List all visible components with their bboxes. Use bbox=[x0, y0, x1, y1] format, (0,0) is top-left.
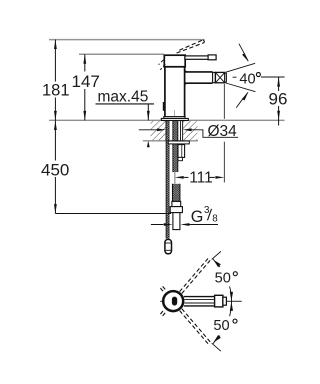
dim 96 top arrow bbox=[277, 77, 280, 86]
lever tip bbox=[208, 55, 216, 60]
dim 96 line bbox=[278, 77, 280, 125]
dim G3/8 left arrow bbox=[164, 223, 173, 226]
lever raised tip arc bbox=[203, 40, 204, 43]
deck bottom line bbox=[143, 140, 198, 142]
dim 450 bottom reference line bbox=[55, 213, 171, 215]
hose nipple tube bbox=[173, 213, 180, 230]
deck top line bbox=[49, 119, 285, 121]
svg-text:40: 40 bbox=[239, 72, 255, 88]
dim 111 extension line upper bbox=[223, 84, 225, 119]
reference line: lever max height bbox=[49, 39, 205, 41]
svg-text:Ø34: Ø34 bbox=[208, 123, 238, 140]
dim 40deg degree symbol bbox=[256, 73, 260, 77]
plan spout neck top edge bbox=[184, 296, 215, 298]
dim G3/8 slash bbox=[208, 209, 212, 221]
dim 147 top arrow bbox=[83, 54, 86, 63]
shank right tube line bbox=[180, 121, 182, 141]
dim 40deg upper arrowhead bbox=[242, 53, 248, 61]
dim 450 line bbox=[54, 120, 56, 213]
deck hatching right bbox=[183, 121, 198, 140]
dim 181 line bbox=[54, 40, 56, 121]
spray line upper bbox=[226, 63, 255, 72]
spout bottom fillet bbox=[185, 83, 188, 86]
dim 50deg lower degree symbol bbox=[233, 319, 237, 323]
svg-text:96: 96 bbox=[269, 90, 288, 109]
mounting nut bbox=[178, 145, 185, 158]
plan spout inner line lower bbox=[185, 302, 215, 304]
dim max.45 arrow to deck bottom bbox=[147, 141, 150, 147]
svg-text:8: 8 bbox=[212, 214, 218, 225]
spout top fillet bbox=[185, 69, 188, 72]
plan axis tick left bbox=[160, 300, 164, 302]
dim 147 bottom arrow bbox=[83, 111, 86, 120]
body centerline bbox=[174, 110, 176, 120]
svg-text:50: 50 bbox=[213, 318, 229, 334]
svg-text:max.45: max.45 bbox=[98, 88, 149, 105]
mounting nut tab bbox=[178, 157, 183, 160]
rod weight inner lines bbox=[165, 243, 171, 250]
dim diam34 left arrow bbox=[157, 128, 166, 131]
dim 40deg lower arrowhead bbox=[242, 92, 248, 100]
plan aerator block bbox=[215, 295, 223, 307]
dim diam34 leader bbox=[192, 130, 238, 138]
svg-text:181: 181 bbox=[42, 82, 70, 100]
dim 50deg lower arc near axis bbox=[230, 302, 232, 317]
lever rotated up 50deg (dashed) bbox=[160, 257, 211, 316]
aerator block bbox=[215, 72, 224, 82]
spout bottom edge bbox=[185, 82, 213, 84]
dim 40deg left tick bbox=[233, 76, 237, 78]
dim 450 bottom arrow bbox=[54, 204, 57, 213]
dim 111 left tail bbox=[184, 176, 189, 178]
spout top edge bbox=[185, 71, 213, 73]
washer under deck bbox=[168, 141, 189, 144]
dim 111 extension line lower bbox=[223, 142, 225, 183]
dim 450 top arrow bbox=[54, 121, 57, 130]
faucet cartridge block bbox=[164, 55, 185, 67]
faucet body bbox=[165, 67, 185, 117]
dim 50deg upper arrowhead at axis bbox=[230, 292, 233, 301]
body left protrusion bbox=[163, 102, 165, 111]
dim 111 right tail bbox=[209, 176, 215, 178]
dim 50deg upper extension line bbox=[212, 251, 221, 259]
mounting hole left wall bbox=[165, 120, 167, 141]
lever raised (dashed) bbox=[177, 40, 205, 53]
hose collar bbox=[172, 201, 181, 206]
lever bar (horizontal) bbox=[185, 56, 208, 59]
pull rod (left) bbox=[166, 121, 169, 239]
dim 96 bottom arrow bbox=[277, 111, 280, 120]
dim max.45 underline bbox=[96, 103, 155, 105]
spout collar bbox=[213, 72, 216, 82]
dim diam34 left tail bbox=[139, 129, 157, 131]
dim 50deg upper arc stub bbox=[213, 259, 220, 267]
dim 50deg upper arrowhead at lever bbox=[213, 260, 221, 268]
svg-text:50: 50 bbox=[215, 270, 231, 286]
spray line lower bbox=[226, 83, 256, 92]
dim 40deg upper leader bbox=[239, 44, 248, 62]
dim max.45 line upper bbox=[147, 104, 149, 120]
svg-text:450: 450 bbox=[41, 160, 69, 179]
dim 40deg lower leader bbox=[236, 92, 248, 107]
aerator face bbox=[225, 73, 227, 82]
dim 181 bottom arrow bbox=[54, 111, 57, 120]
dim max.45 arrow to deck top bbox=[147, 111, 150, 120]
body circle bbox=[163, 291, 183, 311]
dim G3/8 right tail bbox=[189, 224, 218, 226]
svg-text:147: 147 bbox=[72, 72, 100, 91]
svg-text:G: G bbox=[191, 208, 204, 226]
spout axis reference tick for 96 bbox=[261, 76, 285, 78]
reference line: cartridge top (147 level) bbox=[79, 53, 164, 55]
plan spout inner line upper bbox=[185, 299, 215, 301]
dim 50deg lower arrowhead at axis bbox=[230, 302, 233, 311]
threaded shank bbox=[173, 121, 178, 173]
dim 50deg upper degree symbol bbox=[233, 272, 237, 276]
dim G3/8 left tail bbox=[151, 224, 164, 226]
plan axis line right bbox=[226, 300, 241, 302]
lever raised back end (dashed) bbox=[159, 60, 166, 70]
dim 111 left arrow bbox=[175, 176, 184, 179]
dim 147 line bbox=[84, 54, 86, 120]
plan spout neck bottom edge bbox=[184, 305, 215, 307]
dim 50deg lower arc stub bbox=[213, 336, 220, 344]
deck hatching left bbox=[151, 121, 167, 140]
mounting nut inner line bbox=[181, 145, 183, 158]
axis extension between shank and hose bbox=[174, 172, 176, 184]
hose hex nut bbox=[170, 207, 182, 213]
plan aerator cap bbox=[223, 297, 227, 305]
dim 50deg lower extension line bbox=[212, 343, 221, 351]
aerator cross X bbox=[215, 72, 224, 82]
svg-text:111: 111 bbox=[189, 169, 213, 186]
lever rotated down 50deg (dashed) bbox=[160, 286, 211, 345]
lever slot (plan) bbox=[172, 297, 177, 306]
rod weight bbox=[165, 239, 172, 253]
dim 50deg lower arrowhead at lever bbox=[213, 335, 221, 343]
dim 50deg upper arc near axis bbox=[230, 286, 232, 301]
base flange lower tier bbox=[161, 119, 188, 121]
dim 111 right arrow bbox=[215, 176, 224, 179]
dim G3/8 right arrow bbox=[180, 223, 189, 226]
dim diam34 right arrow bbox=[183, 128, 192, 131]
dim 181 top arrow bbox=[54, 40, 57, 49]
base flange upper tier bbox=[164, 117, 185, 119]
mounting hole right wall bbox=[182, 120, 184, 141]
supply hose braided bbox=[173, 184, 180, 202]
